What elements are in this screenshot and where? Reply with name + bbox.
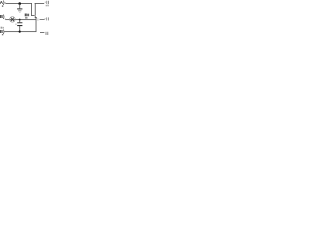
label under top port part 2 — [47, 5, 48, 7]
ground bar 1 — [17, 8, 22, 9]
capacitor C2 bottom plate — [17, 25, 22, 26]
node junction dot middle wire — [19, 19, 21, 21]
port double bar tick 2 — [46, 32, 49, 35]
port mid double bar tick 1 — [45, 17, 48, 20]
label Z0 tiny text part 2 — [27, 14, 29, 17]
port double bar tick 1 — [45, 32, 48, 35]
label C tiny mark left of capacitor — [16, 24, 17, 25]
node dot below label A — [2, 5, 3, 6]
wire right vertical drop — [35, 20, 38, 32]
port mid double bar tick 2 — [47, 17, 50, 20]
capacitor series faint plate 2 — [38, 18, 41, 20]
wire stub bottom bar faint end — [34, 14, 35, 17]
node dot before top port — [44, 1, 47, 4]
label Z0 tiny text — [25, 14, 27, 17]
wire stub bottom bar — [31, 14, 34, 17]
wire top right segment — [35, 2, 45, 5]
label under top port — [46, 5, 47, 7]
junction X strokes — [11, 18, 14, 22]
svg-text:B): B) — [0, 14, 5, 19]
wire top left segment — [6, 2, 32, 5]
capacitor C2 top plate — [17, 21, 22, 24]
label bottom-left tiny text upper part 2 — [3, 27, 4, 29]
wire middle right segment — [40, 18, 45, 21]
svg-text:A): A) — [0, 0, 5, 5]
capacitor series faint plate 1 — [36, 18, 39, 20]
node junction dot on top wire — [18, 2, 21, 5]
wire jog vertical — [35, 17, 38, 20]
label tiny text under Z0 — [25, 17, 27, 19]
wire stub right vertical — [34, 3, 37, 18]
junction X symbol — [10, 17, 16, 23]
node junction dot bottom wire — [19, 31, 21, 33]
wire jog horizontal — [35, 16, 37, 19]
wire capacitor C2 bottom lead — [18, 26, 21, 32]
wire stub left vertical — [30, 3, 33, 16]
wire capacitor stub lead — [18, 4, 21, 8]
wire middle left end nub — [4, 18, 7, 19]
node dot before mid port — [44, 17, 47, 20]
wire bottom horizontal — [4, 30, 36, 33]
node dot below bottom-left label — [2, 34, 3, 35]
wire capacitor C2 top lead — [18, 20, 21, 22]
wire middle horizontal — [5, 18, 36, 21]
port top double bar tick 1 — [45, 1, 48, 4]
ground bar 2 — [18, 9, 21, 12]
port top double bar tick 2 — [47, 1, 50, 4]
svg-text:B): B) — [0, 29, 5, 34]
ground bar 3 — [19, 11, 21, 14]
wire top left end nub — [4, 2, 7, 3]
label bottom-left tiny text upper — [1, 27, 3, 29]
wire bottom right segment — [40, 31, 44, 34]
